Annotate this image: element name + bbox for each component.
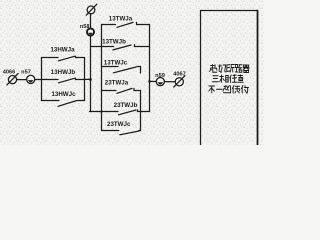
function table panel [201, 11, 258, 146]
svg-text:13HWJa: 13HWJa [50, 47, 75, 54]
wire rail to n59 [150, 80, 157, 82]
contact 23TWJb [90, 110, 150, 115]
inner rail of 23TWJ group [140, 91, 142, 131]
contact 13HWJc [42, 101, 85, 107]
char duan [227, 65, 235, 73]
char san [212, 76, 218, 82]
contact 13HWJb [42, 78, 85, 83]
right rail of middle groups [149, 25, 151, 112]
svg-text:13TWJb: 13TWJb [102, 38, 126, 45]
note text line 1 [210, 65, 249, 73]
contact 23TWJa [102, 88, 141, 93]
wire n59 to 4067 [164, 81, 175, 83]
13HWJ group left rail [41, 58, 43, 101]
left rail of middle groups [101, 25, 103, 131]
char lu [235, 65, 242, 73]
wire 4066 to n57 [17, 79, 27, 81]
13HWJ group right rail [84, 58, 86, 101]
svg-text:n58: n58 [80, 24, 90, 30]
char hu [241, 86, 248, 94]
jack n59 [156, 78, 164, 86]
wire 13HWJ group to bus [85, 78, 91, 80]
terminal 4066 [7, 74, 18, 85]
char bu [209, 86, 215, 93]
svg-text:4066: 4066 [3, 69, 15, 75]
svg-text:4067: 4067 [173, 71, 185, 77]
svg-text:13HWJb: 13HWJb [51, 69, 76, 76]
junction [89, 78, 92, 81]
junction bus to 23TWJb [100, 110, 102, 112]
char bao [232, 86, 239, 94]
terminal 4067 [174, 76, 185, 87]
char qi [210, 65, 217, 73]
char wei [230, 75, 237, 83]
jack n57 [27, 75, 35, 83]
junction right rail to n59 wire [148, 80, 151, 83]
svg-text:23TWJa: 23TWJa [105, 79, 129, 86]
note text line 3 [209, 86, 249, 94]
note text line 2 [212, 75, 243, 83]
contact 13TWJc [102, 67, 141, 74]
char zhi [238, 75, 243, 83]
contact 23TWJc [102, 131, 141, 135]
contact 13HWJa [42, 56, 85, 61]
wire terminal to n58 jack [90, 14, 92, 28]
char xiang [220, 75, 229, 82]
wire n57 to 13HWJ group [35, 79, 42, 81]
svg-text:n57: n57 [21, 69, 31, 75]
svg-text:13HWJc: 13HWJc [51, 91, 76, 98]
svg-text:23TWJc: 23TWJc [107, 121, 131, 128]
svg-text:23TWJb: 23TWJb [114, 102, 138, 109]
contact 13TWJb [91, 45, 150, 50]
wire n58 bus [90, 36, 92, 112]
svg-text:13TWJc: 13TWJc [104, 59, 128, 66]
char dong [219, 65, 227, 73]
svg-text:13TWJa: 13TWJa [109, 15, 133, 22]
terminal top [86, 4, 97, 15]
char qi4 [243, 65, 249, 73]
svg-text:n59: n59 [155, 73, 165, 79]
contact 13TWJa [102, 22, 150, 27]
char zhi4 [223, 86, 231, 93]
jack n58 [87, 28, 94, 35]
char yi [216, 88, 222, 90]
